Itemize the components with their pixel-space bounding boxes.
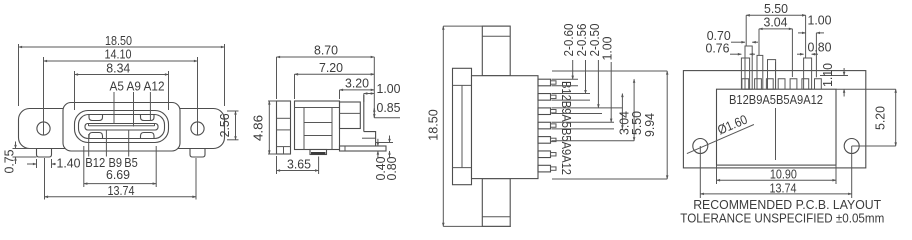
svg-text:13.74: 13.74 xyxy=(108,183,135,198)
body inner left xyxy=(303,108,305,150)
svg-text:0.75: 0.75 xyxy=(2,150,17,174)
right mounting hole xyxy=(191,122,204,135)
strip divider top xyxy=(453,84,472,86)
svg-text:8.34: 8.34 xyxy=(106,60,130,75)
left bottom tab xyxy=(37,149,52,158)
body top band xyxy=(295,107,340,109)
tall pad 2 xyxy=(745,46,752,89)
dim 2.56 xyxy=(227,110,239,112)
left mounting hole xyxy=(37,122,50,135)
svg-text:1.10: 1.10 xyxy=(820,63,835,87)
column foot horizontal xyxy=(364,132,376,146)
shell outer oval xyxy=(75,111,169,143)
callout 2-0.50 xyxy=(597,60,599,108)
hole center ext right xyxy=(851,146,853,198)
dim 3.04 vertical xyxy=(621,94,623,129)
dim 7.20 xyxy=(294,74,296,99)
dim 3.20 xyxy=(339,90,341,99)
front shell strip xyxy=(453,68,472,184)
svg-text:8.70: 8.70 xyxy=(314,43,338,58)
leader B5 xyxy=(128,130,130,157)
bottom contact bump right xyxy=(141,133,154,139)
shell inner oval xyxy=(79,115,165,139)
dim 1.00 top xyxy=(815,33,817,77)
back column xyxy=(363,95,365,132)
leader A5 xyxy=(113,92,115,124)
dim 1.40 xyxy=(36,159,38,168)
body inner line 1 xyxy=(304,122,332,124)
svg-text:0.76: 0.76 xyxy=(706,40,730,55)
svg-text:5.20: 5.20 xyxy=(872,106,887,130)
top contact bump right xyxy=(141,115,154,121)
bottom ear tab xyxy=(482,179,510,227)
hole center ext left xyxy=(699,146,701,198)
svg-text:1.00: 1.00 xyxy=(808,12,832,27)
svg-text:0.80: 0.80 xyxy=(808,40,832,55)
top contact bump left xyxy=(89,115,103,121)
lead inner tick xyxy=(344,146,346,151)
callout 1.00 xyxy=(610,62,612,122)
svg-text:10.90: 10.90 xyxy=(770,167,797,182)
right bottom tab xyxy=(190,149,205,158)
dim 10.90 xyxy=(716,165,718,184)
dim 3.65 xyxy=(276,156,278,174)
pin tips xyxy=(551,81,557,170)
tall pad 3 xyxy=(757,55,763,89)
svg-text:18.50: 18.50 xyxy=(426,109,441,141)
leader B12 xyxy=(88,134,90,157)
strip middle vertical xyxy=(461,85,463,167)
svg-text:6.69: 6.69 xyxy=(106,167,130,182)
body inner right xyxy=(331,108,333,150)
flange stadium body xyxy=(19,109,225,149)
pcb outer outline xyxy=(683,71,865,168)
flange line 1 xyxy=(277,117,291,119)
flange tab detail xyxy=(283,147,285,154)
flange line 3 xyxy=(277,146,291,148)
svg-text:7.20: 7.20 xyxy=(319,60,343,75)
pin width ext lines xyxy=(552,78,579,80)
svg-text:TOLERANCE UNSPECIFIED ±0.05mm: TOLERANCE UNSPECIFIED ±0.05mm xyxy=(680,211,884,226)
dim 9.94 vertical xyxy=(552,70,667,72)
svg-text:1.00: 1.00 xyxy=(600,37,615,61)
dim 8.34 extension lines xyxy=(74,71,76,110)
svg-text:3.04: 3.04 xyxy=(764,14,788,29)
flange line 2 xyxy=(277,129,291,131)
centerline upper xyxy=(775,62,777,89)
dim 0.85 xyxy=(374,117,400,119)
strip divider bottom xyxy=(453,167,472,169)
svg-text:A5 A9 A12: A5 A9 A12 xyxy=(110,78,165,93)
svg-text:0.85: 0.85 xyxy=(377,100,401,115)
bottom contact bump left xyxy=(89,133,103,139)
left pcb hole xyxy=(693,139,708,154)
svg-text:9.94: 9.94 xyxy=(642,113,657,137)
short pads row xyxy=(742,79,821,89)
dim 5.20 xyxy=(836,88,896,90)
svg-text:B12B9A5B5A9A12: B12B9A5B5A9A12 xyxy=(729,92,823,107)
peg dark base xyxy=(311,152,326,155)
svg-text:3.65: 3.65 xyxy=(287,156,311,171)
dim 14.10 / hole centerlines xyxy=(43,57,45,135)
svg-text:3.20: 3.20 xyxy=(345,75,369,90)
dim 3.04 top xyxy=(758,29,760,56)
dim 13.74 xyxy=(700,193,851,195)
dim 0.76 xyxy=(730,53,741,55)
hole leader line xyxy=(687,125,754,154)
dim 1.10 xyxy=(820,75,848,77)
dim 0.75 xyxy=(13,148,37,150)
solder lead tail xyxy=(340,146,387,151)
dim 13.74 xyxy=(44,158,46,200)
small shelf line xyxy=(362,137,376,139)
dim 0.40 xyxy=(375,142,393,144)
tongue xyxy=(85,124,158,131)
main body xyxy=(472,76,539,179)
svg-text:14.10: 14.10 xyxy=(105,46,132,61)
bottom peg xyxy=(310,150,327,155)
top tab divider xyxy=(482,35,510,37)
svg-text:2.56: 2.56 xyxy=(217,113,232,137)
leader A9 xyxy=(133,92,135,127)
body inner line 2 xyxy=(304,135,332,137)
dim 0.70 xyxy=(731,41,745,43)
dim 8.70 xyxy=(276,57,278,99)
dim 6.69 xyxy=(83,146,85,187)
svg-text:13.74: 13.74 xyxy=(770,180,797,195)
dim 0.80 xyxy=(797,53,804,55)
bottom tab divider xyxy=(482,216,510,218)
flange plate (side) xyxy=(277,101,291,154)
right pcb hole xyxy=(844,139,859,154)
top ear tab xyxy=(482,26,510,76)
tall pad 1 xyxy=(741,58,749,89)
svg-text:B12: B12 xyxy=(85,155,105,170)
svg-text:B12B9A5B5A9A12: B12B9A5B5A9A12 xyxy=(559,81,574,175)
tall pad 4 xyxy=(768,60,776,90)
step box mid line xyxy=(340,112,361,114)
svg-text:4.86: 4.86 xyxy=(251,115,266,141)
footprint inner rect xyxy=(717,89,837,165)
callout 2-0.56 xyxy=(585,60,587,94)
svg-text:1.40: 1.40 xyxy=(57,156,81,171)
tongue inner top line xyxy=(89,125,155,127)
svg-text:1.00: 1.00 xyxy=(377,81,401,96)
callout 2-0.60 xyxy=(572,60,574,79)
pins comb xyxy=(538,79,551,172)
tall pad 5 xyxy=(804,58,812,89)
tongue end tick right xyxy=(154,124,156,127)
dim 8.34 xyxy=(75,74,169,76)
main body (side) xyxy=(295,101,340,150)
dim 5.50 vertical xyxy=(552,140,635,142)
leader B9 xyxy=(105,130,107,157)
dim 0.80 xyxy=(389,136,391,143)
dim 18.50 xyxy=(18,44,20,106)
dim 4.86 xyxy=(268,100,277,102)
tongue end tick left xyxy=(88,124,90,127)
centerline lower xyxy=(775,108,777,160)
leader A12 xyxy=(149,92,151,121)
dim 1.00 xyxy=(363,94,365,103)
shell back step box xyxy=(340,102,361,129)
svg-text:0.80: 0.80 xyxy=(384,157,399,181)
dim 5.50 top xyxy=(745,15,747,46)
dim 18.50 vertical xyxy=(443,25,510,27)
central housing body xyxy=(63,103,180,152)
